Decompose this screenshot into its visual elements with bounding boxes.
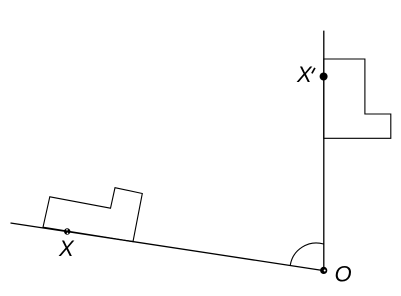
svg-text:O: O xyxy=(335,261,352,286)
point O (marker blob) xyxy=(320,267,327,274)
svg-text:X: X xyxy=(296,62,313,87)
incline line through X to O xyxy=(11,223,324,271)
angle arc at O xyxy=(290,243,323,265)
svg-text:X: X xyxy=(58,236,75,261)
point X (marker blob on line) xyxy=(64,228,70,234)
flag shape on vertical line (image) xyxy=(324,59,391,138)
flag shape on incline (preimage) xyxy=(43,188,142,242)
vertical line through X' to O xyxy=(323,31,325,271)
label X' xyxy=(296,62,315,87)
point X' (filled dot) xyxy=(320,73,328,81)
